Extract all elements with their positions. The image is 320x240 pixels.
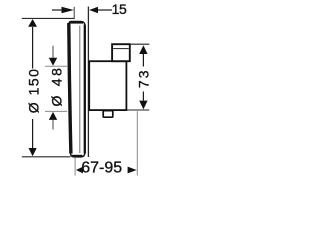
dimension D48 upper tick bbox=[45, 65, 67, 67]
dimension 15 dim line left stem bbox=[52, 9, 62, 11]
dimension 73 top arrow bbox=[139, 45, 147, 54]
dimension 73 lower stem bbox=[142, 92, 144, 101]
dimension 15 left extension line bbox=[73, 7, 75, 19]
svg-text:15: 15 bbox=[112, 1, 127, 17]
svg-text:67-95: 67-95 bbox=[81, 160, 122, 177]
dimension 67-95 right extension line bbox=[136, 111, 138, 175]
dimension D48 lower tick bbox=[45, 110, 67, 112]
svg-text:7: 7 bbox=[136, 80, 152, 88]
plate front edge thick bbox=[69, 23, 71, 154]
dimension D150 top extension line bbox=[22, 17, 74, 19]
dimension 67-95 left arrow bbox=[76, 167, 83, 174]
dimension 15 right stem bbox=[98, 9, 112, 11]
wall line bbox=[87, 7, 89, 158]
dimension D150 top arrow bbox=[28, 19, 37, 27]
dimension 73 bottom extension line bbox=[126, 109, 149, 111]
plate top edge thick bbox=[70, 21, 83, 23]
dimension D150 lower stem bbox=[32, 119, 34, 148]
dimension D48 upper arrow bbox=[49, 58, 57, 66]
dimension D48 upper stem bbox=[52, 46, 54, 59]
dimension D150 bottom extension line bbox=[22, 156, 71, 158]
dimension 67-95 left extension line bbox=[74, 158, 76, 176]
svg-text:3: 3 bbox=[136, 70, 152, 78]
dimension 73 top extension line bbox=[130, 43, 150, 45]
valve body bbox=[89, 61, 126, 110]
dimension D48 lower arrow bbox=[49, 112, 57, 120]
dimension D48 lower stem bbox=[52, 120, 54, 130]
plate bottom edge thick bbox=[72, 155, 83, 157]
dimension 73 bottom arrow bbox=[139, 101, 147, 110]
nub below body bbox=[103, 111, 113, 118]
dimension D150 bottom arrow bbox=[29, 148, 37, 156]
dimension 15 left arrow bbox=[62, 7, 74, 13]
dimension 67-95 right arrow bbox=[128, 167, 137, 174]
plate back edge thick bbox=[84, 25, 86, 154]
svg-text:Ø 150: Ø 150 bbox=[25, 68, 41, 114]
dimension 15 right arrow bbox=[89, 7, 98, 13]
plate inner rim line bbox=[79, 26, 81, 154]
dimension 73 upper stem bbox=[142, 54, 144, 67]
cartridge cap bbox=[112, 44, 130, 61]
plate escutcheon profile bbox=[69, 21, 85, 157]
cap inner line bbox=[113, 48, 129, 50]
dimension D150 upper stem bbox=[32, 27, 34, 69]
svg-text:Ø 48: Ø 48 bbox=[49, 65, 65, 106]
